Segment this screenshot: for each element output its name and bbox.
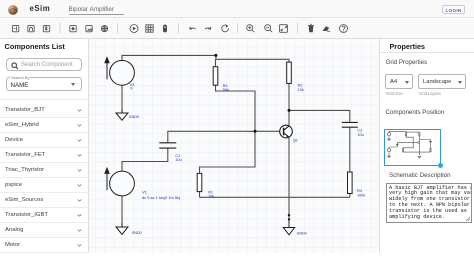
wire V1 bottom to ground <box>121 196 123 227</box>
wire R1 bottom to ground rail <box>199 192 201 198</box>
svg-text:9: 9 <box>130 87 132 91</box>
ground GND0 below V2 <box>116 110 128 121</box>
wire node A step to R2 top <box>216 55 289 62</box>
voltage source V1 <box>104 167 134 196</box>
label C1 10u <box>175 154 181 162</box>
label R1 15k <box>208 190 214 198</box>
capacitor C2 <box>342 122 358 127</box>
wire V2 top to node A <box>122 55 216 60</box>
label C2 10u <box>357 129 363 137</box>
label R3 56k <box>223 84 229 92</box>
wire C2 bottom to R4 top <box>349 127 351 172</box>
resistor R3 <box>213 67 218 86</box>
svg-text:15k: 15k <box>208 195 214 199</box>
junction base node <box>254 130 257 133</box>
wire C1 top to Q2 base <box>168 131 281 143</box>
wire V2 bottom to ground <box>121 85 123 112</box>
wire collector node to Q2 collector <box>288 110 290 126</box>
svg-text:100k: 100k <box>357 193 365 197</box>
svg-text:V1: V1 <box>142 190 148 195</box>
svg-text:10k: 10k <box>298 88 304 92</box>
resistor R4 <box>348 172 353 194</box>
capacitor C1 <box>159 143 176 148</box>
wire C1 bottom to V1 top <box>122 148 168 171</box>
svg-text:dc 0 ac 1 sin(0 1m 5k): dc 0 ac 1 sin(0 1m 5k) <box>142 195 181 200</box>
resistor R2 <box>287 62 292 83</box>
svg-text:56k: 56k <box>223 88 229 92</box>
svg-text:GND0: GND0 <box>129 115 139 119</box>
wire R4 bottom to rail <box>349 194 351 198</box>
label R4 100k <box>357 189 365 197</box>
pin-end dots emitter net <box>288 214 290 221</box>
svg-text:Q2: Q2 <box>293 139 298 143</box>
label R2 10k <box>298 84 304 92</box>
wire Q2 emitter down <box>288 138 290 220</box>
wire R3 bottom to base node <box>216 85 256 131</box>
svg-text:GND0: GND0 <box>297 231 307 235</box>
label V1 dc 0 ac 1 sin(0 1m 5k) <box>142 190 181 200</box>
wire bottom rail <box>200 196 350 198</box>
label Q2 <box>293 139 298 143</box>
resistor R1 <box>197 173 202 191</box>
junction collector node <box>288 109 291 112</box>
svg-text:10u: 10u <box>357 133 363 137</box>
junction node A <box>214 54 217 57</box>
svg-text:GND0: GND0 <box>132 231 142 235</box>
wire R2 bottom to collector node <box>288 83 290 110</box>
wire base node down to R1 top <box>200 131 256 173</box>
svg-text:10u: 10u <box>175 158 181 162</box>
wire R3 top pin <box>215 59 217 66</box>
label V2 9 <box>130 83 135 91</box>
ground GND0 below V1 <box>116 223 128 234</box>
ground GND0 emitter <box>283 219 294 234</box>
voltage source V2 <box>104 56 134 85</box>
wire collector node to C2 top <box>289 110 350 122</box>
transistor Q2 <box>280 125 293 138</box>
